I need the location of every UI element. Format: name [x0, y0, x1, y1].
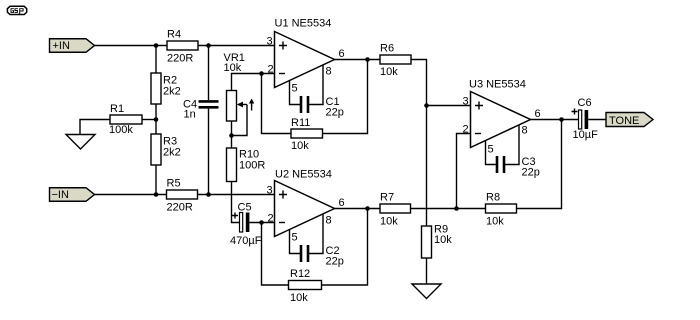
wire U3 output to C6	[531, 119, 579, 121]
node U3 output junction	[559, 117, 564, 122]
capacitor C1	[301, 96, 344, 119]
wire node up to U3 pin2	[457, 134, 471, 209]
svg-text:−IN: −IN	[52, 189, 69, 201]
svg-text:R12: R12	[290, 268, 310, 280]
node -IN/R3 junction	[154, 192, 159, 197]
node U1 output junction	[365, 57, 370, 62]
svg-text:6: 6	[339, 197, 345, 209]
wire -IN to R5	[95, 194, 167, 196]
svg-text:220R: 220R	[167, 202, 193, 214]
wire node to R2	[155, 46, 157, 74]
svg-text:5: 5	[488, 144, 494, 156]
svg-text:5: 5	[292, 83, 298, 95]
wire R12 to U2 output column	[322, 209, 368, 286]
resistor R6	[380, 43, 411, 79]
capacitor C5	[230, 202, 262, 248]
esp logo	[7, 6, 26, 15]
wire R1 to ground	[80, 120, 110, 135]
svg-text:R4: R4	[167, 29, 181, 41]
capacitor C4	[183, 99, 219, 121]
capacitor C6	[572, 97, 599, 141]
svg-text:R8: R8	[486, 192, 500, 204]
svg-text:3: 3	[267, 185, 273, 197]
svg-text:U3 NE5534: U3 NE5534	[469, 79, 526, 91]
wire R10 to C5 (crosses -IN row)	[232, 182, 240, 223]
svg-text:10k: 10k	[380, 216, 398, 228]
svg-text:10µF: 10µF	[573, 129, 599, 141]
svg-text:TONE: TONE	[609, 115, 639, 127]
wire R6 to U3 pin3	[411, 60, 471, 106]
svg-text:R5: R5	[167, 178, 181, 190]
pin 5 wire U2	[290, 229, 301, 254]
wire R7 to R8 (crosses R9 column)	[411, 208, 486, 210]
wire R9 to ground	[426, 258, 428, 284]
node U1 pin2 junction	[259, 71, 264, 76]
wire R3 to -IN row	[155, 165, 157, 195]
resistor R8	[486, 192, 517, 228]
wire U2 output	[335, 208, 381, 210]
wire node down to R9 (crosses R7 row)	[426, 106, 428, 227]
svg-text:R11: R11	[291, 117, 310, 129]
wire C4 vertical	[208, 46, 210, 101]
op-amp U2	[275, 169, 335, 237]
svg-text:C5: C5	[238, 202, 252, 214]
node R6/R9 junction	[424, 103, 429, 108]
ground (middle)	[412, 284, 441, 299]
svg-text:R6: R6	[380, 43, 394, 55]
wire U1 pin2 down to R11	[262, 74, 292, 134]
wire U1 output	[335, 59, 381, 61]
wire C4 to -IN row	[208, 109, 210, 195]
svg-text:100R: 100R	[239, 160, 265, 172]
node junction R1/R2/R3	[154, 117, 159, 122]
wire R11 to U1 output column	[323, 60, 368, 134]
svg-text:U2 NE5534: U2 NE5534	[275, 169, 332, 181]
resistor R12	[289, 268, 322, 304]
svg-text:10k: 10k	[380, 66, 398, 78]
resistor R11	[291, 117, 323, 152]
pin 8 wire U2	[309, 214, 323, 254]
svg-text:10k: 10k	[224, 62, 242, 74]
svg-text:U1 NE5534: U1 NE5534	[275, 18, 332, 30]
potentiometer VR1	[224, 52, 255, 136]
wire U2 pin2 down to R12	[262, 223, 289, 286]
svg-text:10k: 10k	[486, 216, 504, 228]
svg-text:10k: 10k	[434, 234, 452, 246]
svg-text:6: 6	[535, 108, 541, 120]
node U2 output junction	[365, 206, 370, 211]
wire R8 up to U3 output	[517, 120, 562, 209]
svg-text:+IN: +IN	[53, 40, 70, 52]
pin 8 wire U3	[505, 125, 519, 165]
svg-text:22p: 22p	[326, 256, 344, 268]
resistor R2	[151, 73, 181, 104]
svg-text:3: 3	[463, 96, 469, 108]
ground (left)	[66, 135, 95, 150]
wire R2 to R3	[155, 104, 157, 134]
svg-text:22p: 22p	[522, 167, 540, 179]
wire R5 to U2 pin3	[198, 194, 275, 196]
pin 8 wire U1	[309, 65, 323, 105]
svg-text:2k2: 2k2	[163, 147, 181, 159]
svg-text:8: 8	[522, 125, 528, 137]
node junction +IN/R2	[154, 43, 159, 48]
resistor R4	[167, 29, 198, 65]
node VR1 wiper junction	[229, 133, 234, 138]
svg-text:100k: 100k	[109, 124, 133, 136]
wire R4 to U1 pin3	[198, 45, 275, 47]
pin 5 wire U1	[290, 80, 301, 105]
resistor R7	[380, 192, 411, 228]
svg-text:R1: R1	[110, 103, 124, 115]
tag -IN	[50, 188, 95, 202]
svg-text:5: 5	[292, 232, 298, 244]
svg-text:6: 6	[339, 48, 345, 60]
svg-text:22p: 22p	[326, 107, 344, 119]
capacitor C3	[497, 156, 540, 179]
svg-text:10k: 10k	[291, 140, 309, 152]
svg-text:10k: 10k	[290, 292, 308, 304]
svg-text:3: 3	[267, 36, 273, 48]
svg-text:8: 8	[326, 215, 332, 227]
wire U1 pin2 to VR1 top	[232, 74, 275, 91]
wire C6 to TONE	[588, 119, 606, 121]
resistor R9	[422, 224, 453, 259]
svg-text:R7: R7	[380, 192, 394, 204]
svg-text:8: 8	[326, 66, 332, 78]
op-amp U1	[275, 18, 335, 88]
pin 5 wire U3	[486, 140, 497, 165]
capacitor C2	[301, 245, 344, 268]
node junction R4/C4	[206, 43, 211, 48]
svg-text:1n: 1n	[184, 109, 196, 121]
wire VR1 bottom to R10	[231, 121, 233, 148]
svg-text:470µF: 470µF	[230, 235, 262, 247]
svg-text:2k2: 2k2	[163, 86, 181, 98]
resistor R5	[167, 178, 198, 214]
wire C5 to U2 pin2	[249, 222, 274, 224]
node R5/C4 junction	[206, 192, 211, 197]
tag TONE	[606, 113, 653, 128]
wire +IN to R4	[95, 45, 168, 47]
op-amp U3	[469, 79, 531, 148]
resistor R3	[151, 134, 181, 165]
svg-text:C6: C6	[578, 97, 592, 109]
tag +IN	[50, 39, 95, 53]
resistor R1	[109, 103, 142, 136]
svg-text:2: 2	[463, 124, 469, 136]
wire R1 to node	[142, 119, 156, 121]
node U2 pin2 junction	[259, 220, 264, 225]
node R7/R8/U3 pin2 junction	[454, 206, 459, 211]
svg-text:220R: 220R	[167, 53, 193, 65]
resistor R10	[227, 148, 266, 182]
